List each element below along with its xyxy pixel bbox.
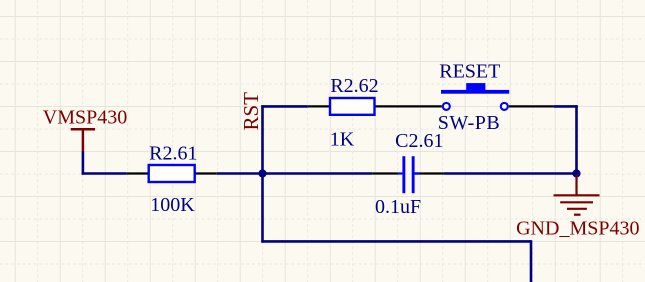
wire RST node down to bottom corner [261,174,264,243]
power symbol VMSP430 [71,129,95,151]
wire top-right corner down to GND junction [575,105,578,173]
wire switch right pin to top-right corner [554,105,578,108]
svg-text:RST: RST [239,92,263,131]
svg-text:GND_MSP430: GND_MSP430 [516,217,639,239]
wire bottom horizontal run [261,240,531,243]
wire from R2.61 right pin to junction [217,172,263,175]
resistor R2.61 [127,165,217,182]
svg-text:0.1uF: 0.1uF [375,196,421,218]
switch S1 SW-PB [397,83,554,110]
wire junction to capacitor C2.61 left pin [263,172,373,175]
resistor R2.62 [308,98,397,115]
wire vertical RST node up to top corner [261,105,264,173]
svg-text:R2.61: R2.61 [149,143,197,165]
junction at GND node [572,169,580,177]
capacitor C2.61 [372,156,443,193]
svg-text:1K: 1K [330,128,355,150]
wire bottom right drop to edge [530,240,533,282]
svg-text:R2.62: R2.62 [330,75,378,97]
svg-text:100K: 100K [150,194,195,216]
wire from VMSP430 corner to R2.61 left pin [82,172,127,175]
svg-text:VMSP430: VMSP430 [43,107,127,129]
wire from VMSP430 down to node [82,151,85,175]
svg-text:RESET: RESET [439,61,500,83]
ground symbol GND_MSP430 [554,175,600,215]
wire top corner to R2.62 left pin [261,105,308,108]
svg-text:C2.61: C2.61 [395,130,443,152]
junction at RST node [258,169,266,177]
wire capacitor right pin to GND junction [444,172,577,175]
svg-text:SW-PB: SW-PB [438,112,501,134]
